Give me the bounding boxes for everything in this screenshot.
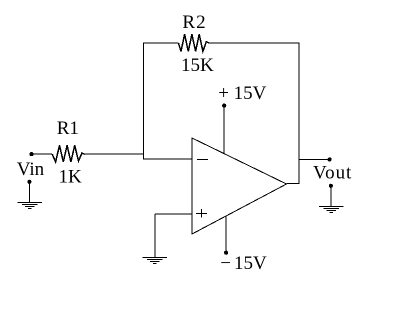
- op-amp U1: [192, 138, 287, 234]
- wire noninverting input: [155, 213, 192, 215]
- ground Vin: [17, 202, 42, 208]
- svg-text:− 15V: − 15V: [220, 253, 267, 274]
- svg-text:+ 15V: + 15V: [218, 83, 266, 104]
- wire top feedback right segment: [210, 42, 300, 44]
- resistor R1: [52, 118, 84, 188]
- wire +15V supply lead: [223, 106, 225, 154]
- svg-text:R2: R2: [182, 12, 206, 33]
- node +15V terminal: [222, 104, 226, 108]
- resistor R2: [179, 12, 215, 76]
- svg-text:1K: 1K: [59, 167, 83, 188]
- wire Vin ground lead: [28, 182, 30, 203]
- wire output branch to Vout: [299, 158, 329, 160]
- svg-text:Vout: Vout: [313, 162, 352, 183]
- ground Vout: [319, 206, 344, 212]
- wire inverting input: [143, 158, 192, 160]
- wire feedback left vertical: [142, 43, 144, 160]
- wire Vin to R1: [32, 153, 53, 155]
- node Vout terminal: [328, 157, 332, 161]
- node Vin terminal: [29, 152, 33, 156]
- node Vin ground dot: [27, 180, 31, 184]
- wire feedback right vertical: [298, 43, 300, 184]
- svg-text:Vin: Vin: [17, 159, 45, 180]
- node -15V terminal: [224, 251, 228, 255]
- svg-text:15K: 15K: [181, 55, 214, 76]
- ground noninverting input: [143, 258, 168, 264]
- wire Vout ground lead: [330, 186, 332, 206]
- wire noninverting ground lead: [154, 214, 156, 257]
- wire -15V supply lead: [225, 216, 227, 253]
- svg-text:R1: R1: [57, 118, 79, 139]
- pin plus sign: [196, 209, 207, 218]
- wire output stub: [287, 182, 300, 184]
- pin minus sign: [197, 159, 208, 161]
- wire R1 to feedback junction: [85, 153, 144, 155]
- wire top feedback left segment: [143, 42, 178, 44]
- node Vout ground dot: [329, 184, 333, 188]
